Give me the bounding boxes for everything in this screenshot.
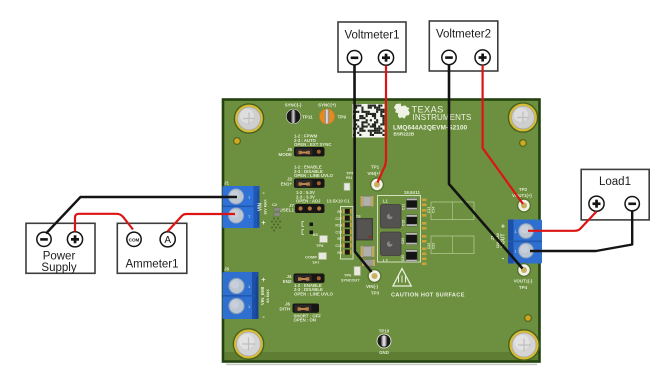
svg-text:C15: C15 — [335, 230, 342, 234]
svg-text:SYNC(+): SYNC(+) — [318, 103, 336, 108]
test point TP3 — [366, 270, 381, 296]
svg-text:8A MAX: 8A MAX — [266, 289, 270, 303]
svg-text:VIN_EMI: VIN_EMI — [260, 287, 265, 305]
svg-text:R14: R14 — [335, 224, 342, 228]
gold pads column — [422, 199, 427, 266]
resistor column R2..R9 — [335, 209, 351, 255]
svg-text:L2: L2 — [383, 258, 389, 263]
svg-text:TP1: TP1 — [371, 165, 380, 170]
test point TP11 — [285, 103, 313, 124]
svg-text:P61: P61 — [346, 176, 352, 180]
svg-text:C2: C2 — [272, 202, 278, 207]
svg-text:18.5X11: 18.5X11 — [404, 190, 421, 195]
wire Voltmeter1+ to TP1 (red) — [378, 66, 387, 183]
svg-text:VIN(-): VIN(-) — [366, 284, 378, 289]
svg-text:C11: C11 — [402, 204, 406, 210]
inductor L1 — [381, 199, 402, 229]
TI logo — [393, 104, 471, 137]
LED D2 top-right — [520, 140, 527, 147]
svg-text:SYNC(-): SYNC(-) — [285, 103, 302, 108]
mounting hole top-left — [234, 104, 263, 133]
svg-text:+: + — [261, 218, 266, 227]
svg-text:EN1+: EN1+ — [281, 181, 293, 186]
footprint C13 C14 — [427, 202, 474, 254]
svg-text:13.5X10 C1: 13.5X10 C1 — [327, 199, 351, 204]
LED D3 bottom-right — [525, 315, 532, 322]
svg-text:OPEN : ON: OPEN : ON — [294, 318, 316, 323]
mounting hole bottom-right — [509, 330, 539, 360]
svg-text:TP8: TP8 — [316, 243, 324, 248]
test point TP1 — [367, 165, 383, 191]
svg-text:OPEN : LINE UVLO: OPEN : LINE UVLO — [294, 173, 334, 178]
svg-text:INSTRUMENTS: INSTRUMENTS — [413, 113, 472, 122]
svg-text:J8: J8 — [224, 267, 229, 272]
jumper J7 USEL1 — [279, 190, 350, 213]
svg-text:USEL1: USEL1 — [279, 208, 294, 213]
LED D1 top-left — [234, 138, 241, 145]
svg-text:COM: COM — [129, 237, 140, 242]
svg-text:BSR222B: BSR222B — [394, 132, 415, 137]
svg-text:C13: C13 — [427, 207, 431, 214]
svg-text:C25: C25 — [401, 238, 405, 245]
svg-text:Supply: Supply — [41, 262, 76, 274]
svg-text:R7: R7 — [337, 237, 342, 241]
wire Voltmeter1- to TP3 (black) — [355, 65, 372, 272]
svg-text:16V MAX: 16V MAX — [264, 199, 268, 215]
svg-text:VIN(+): VIN(+) — [367, 171, 381, 176]
svg-text:TP5: TP5 — [346, 171, 354, 176]
PCB board — [223, 100, 540, 366]
svg-text:R2: R2 — [337, 210, 342, 214]
silkscreen box L area — [378, 190, 421, 262]
wire Voltmeter2- to TP4 (black) — [449, 65, 523, 269]
wire PS+ to Ammeter COM (red) — [75, 214, 133, 232]
svg-text:C14: C14 — [432, 207, 436, 214]
svg-text:DITH: DITH — [280, 306, 291, 311]
wire Ammeter A to J1 pin2 (red) — [168, 214, 236, 232]
connector J8 (VIN_EMI terminal block) — [223, 267, 271, 322]
svg-text:C6: C6 — [356, 214, 362, 219]
jumper J6 DITH — [280, 302, 322, 323]
svg-text:J1: J1 — [224, 181, 229, 186]
wire Voltmeter2+ to TP2 (red) — [483, 65, 523, 204]
wire Load1+ to J3 pin1 (red) — [528, 212, 597, 231]
instrument Ammeter1 — [117, 223, 187, 273]
svg-text:EN2: EN2 — [283, 279, 292, 284]
svg-text:TP4: TP4 — [519, 285, 528, 290]
jumper J2 EN1 — [281, 165, 334, 188]
wire PS- to J1 pin1 (black) — [46, 197, 237, 234]
svg-text:SYNCOUT: SYNCOUT — [341, 279, 360, 283]
test point TP6 pad — [341, 267, 361, 283]
wire Load1- to J3 pin2 (black) — [530, 211, 632, 251]
mounting hole bottom-left — [233, 329, 263, 359]
test point TP4 — [514, 264, 533, 290]
IC U1 — [356, 219, 373, 241]
svg-text:COMP: COMP — [305, 255, 317, 260]
svg-text:TP6: TP6 — [344, 273, 352, 278]
svg-text:+: + — [501, 222, 506, 231]
capacitor column C11-C30 — [401, 199, 417, 262]
connector J1 (VIN terminal block) — [223, 181, 268, 229]
svg-text:L1: L1 — [383, 199, 389, 204]
svg-text:A: A — [164, 235, 171, 246]
svg-text:OPEN : EXT SYNC: OPEN : EXT SYNC — [294, 142, 332, 147]
test point TP5 pad — [344, 171, 354, 191]
capacitor C9 lower — [362, 260, 375, 267]
jumper J4 EN2 — [283, 274, 334, 297]
capacitor C6 — [356, 196, 374, 219]
svg-text:TP9: TP9 — [338, 115, 347, 120]
svg-text:TP10: TP10 — [379, 329, 390, 334]
capacitor C3/C4 specks — [302, 222, 313, 235]
caution triangle — [393, 269, 411, 287]
svg-text:TP11: TP11 — [302, 115, 313, 120]
svg-text:VOUT1(-): VOUT1(-) — [514, 279, 533, 284]
mounting hole top-right — [508, 103, 537, 132]
svg-text:Load1: Load1 — [599, 176, 631, 188]
test point TP7 pad — [305, 253, 327, 266]
instrument Voltmeter1 — [338, 22, 406, 72]
svg-text:C22: C22 — [427, 243, 431, 250]
svg-text:LMQ644A2QEVM-S2100: LMQ644A2QEVM-S2100 — [393, 125, 468, 132]
svg-text:C30: C30 — [401, 255, 405, 262]
test point TP10 GND — [377, 329, 391, 356]
svg-text:Power: Power — [43, 251, 76, 263]
svg-text:OPEN : LINE UVLO: OPEN : LINE UVLO — [294, 291, 334, 296]
test point TP2 — [512, 187, 532, 212]
instrument Voltmeter2 — [429, 21, 498, 71]
QR code label — [353, 104, 385, 138]
svg-text:C15: C15 — [402, 220, 406, 227]
silkscreen box resistor column — [341, 207, 354, 260]
svg-text:C17: C17 — [335, 217, 342, 221]
svg-text:MODE: MODE — [279, 152, 293, 157]
capacitor C2 group — [272, 202, 280, 216]
connector J3 (VOUT terminal block) — [490, 220, 542, 264]
instrument Load1 — [581, 169, 649, 220]
inductor L2 — [381, 232, 402, 263]
svg-text:C23: C23 — [432, 243, 436, 250]
svg-text:TP3: TP3 — [371, 291, 380, 296]
via cluster — [271, 218, 281, 232]
svg-text:C16: C16 — [335, 244, 342, 248]
test point TP9 — [318, 103, 346, 125]
svg-text:OPEN : ADJ: OPEN : ADJ — [296, 198, 321, 203]
test point TP8 pad — [313, 232, 328, 248]
svg-text:Voltmeter2: Voltmeter2 — [436, 29, 491, 41]
instrument Power Supply — [26, 223, 95, 273]
svg-text:GND: GND — [379, 350, 389, 355]
svg-text:Ammeter1: Ammeter1 — [125, 259, 178, 271]
svg-text:R9: R9 — [337, 251, 342, 255]
jumper J5 MODE — [279, 134, 332, 157]
capacitor C7 below IC — [361, 246, 375, 257]
svg-text:Voltmeter1: Voltmeter1 — [345, 30, 400, 42]
svg-text:CAUTION HOT SURFACE: CAUTION HOT SURFACE — [391, 293, 465, 299]
svg-text:+: + — [261, 275, 266, 284]
svg-text:TP2: TP2 — [519, 187, 528, 192]
svg-text:TP7: TP7 — [312, 260, 320, 265]
svg-text:SS: SS — [313, 232, 319, 237]
